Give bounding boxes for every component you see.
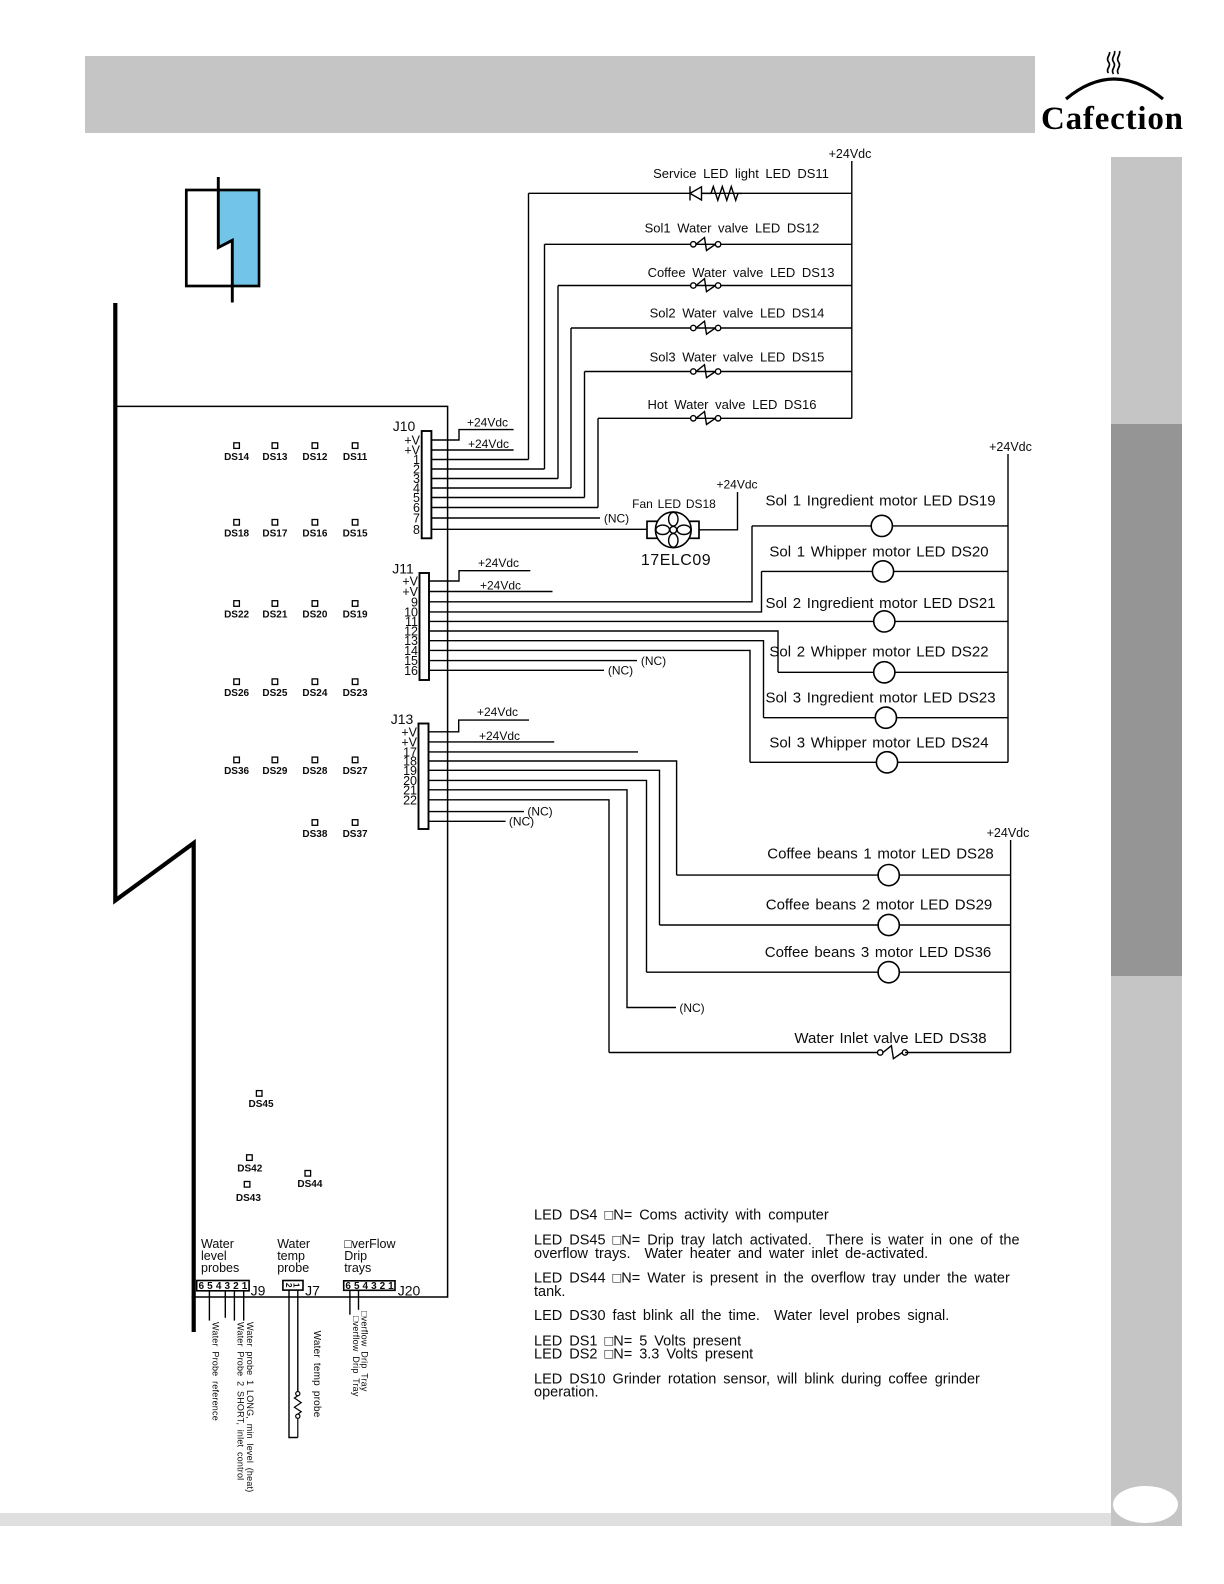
- wire J13 pin 18 to DS28 row: [429, 761, 677, 875]
- wire +24Vdc top bus vertical: [851, 161, 853, 418]
- svg-text:probes: probes: [201, 1261, 239, 1275]
- wire DS12 drop to J10 pin 2: [544, 244, 546, 469]
- svg-text:DS19: DS19: [343, 609, 368, 620]
- LED DS16 indicator: [312, 520, 318, 526]
- wire J11 +V(2) to +24Vdc: [429, 591, 553, 593]
- motor Sol 3 Whipper LED DS24: [876, 752, 897, 773]
- svg-text:Sol 3 Whipper motor LED DS24: Sol 3 Whipper motor LED DS24: [769, 735, 988, 752]
- valve symbol DS16: [691, 412, 721, 425]
- svg-text:DS37: DS37: [343, 829, 368, 840]
- wire DS13 drop to J10 pin 3: [557, 286, 559, 479]
- svg-text:DS12: DS12: [302, 452, 327, 463]
- connector J20: [344, 1281, 395, 1291]
- LED DS20 indicator: [312, 601, 318, 607]
- LED DS17 indicator: [272, 520, 278, 526]
- svg-text:overflow trays. Water heater: overflow trays. Water heater and water i…: [534, 1246, 928, 1262]
- LED DS43 indicator: [244, 1182, 250, 1188]
- LED DS45 indicator: [256, 1091, 262, 1097]
- thermistor water temp probe: [294, 1392, 301, 1438]
- LED DS28 indicator: [312, 757, 318, 763]
- LED DS38 indicator: [312, 820, 318, 826]
- wire thick board flash outline (left edge): [115, 303, 193, 1332]
- wire J11 pin 13 to DS23 row: [429, 641, 764, 718]
- connector J7: [283, 1281, 303, 1291]
- connector J9: [197, 1281, 249, 1291]
- connector J10: [422, 431, 432, 538]
- motor Coffee beans 3 LED DS36: [878, 962, 899, 983]
- svg-text:Sol 2 Whipper motor LED DS22: Sol 2 Whipper motor LED DS22: [769, 643, 988, 660]
- LED DS29 indicator: [272, 757, 278, 763]
- svg-text:DS43: DS43: [236, 1193, 261, 1204]
- LED DS44 indicator: [305, 1171, 311, 1177]
- wire J13 pin nc1 stub: [429, 811, 525, 813]
- LED DS37 indicator: [352, 820, 358, 826]
- wire DS12 row horizontal: [545, 243, 852, 245]
- svg-text:Hot Water valve LED DS16: Hot Water valve LED DS16: [647, 397, 816, 412]
- svg-text:Water Probe 2 SHORT, inlet con: Water Probe 2 SHORT, inlet control: [236, 1322, 246, 1480]
- wire J7 temp probe right upper: [297, 1290, 299, 1392]
- wire J10 pin 3 horizontal: [431, 478, 558, 480]
- connector J13: [419, 724, 429, 830]
- svg-text:Water probe 1 LONG, min level: Water probe 1 LONG, min level (heat): [245, 1322, 255, 1492]
- svg-text:J20: J20: [398, 1282, 421, 1298]
- svg-text:J10: J10: [393, 418, 416, 434]
- wire J13 pin 21 to NC: [429, 790, 677, 1008]
- svg-text:(NC): (NC): [679, 1001, 704, 1015]
- wire J11 pin 14 to DS24 row: [429, 650, 750, 762]
- svg-text:trays: trays: [344, 1261, 371, 1275]
- svg-text:+24Vdc: +24Vdc: [480, 579, 521, 593]
- wire DS14 drop to J10 pin 4: [570, 328, 572, 488]
- motor Sol 2 Ingredient LED DS21: [874, 611, 895, 632]
- wire DS29 row right: [899, 924, 1010, 926]
- motor Sol 2 Whipper LED DS22: [874, 662, 895, 683]
- svg-text:DS45: DS45: [248, 1099, 273, 1110]
- svg-text:Sol2 Water valve LED DS14: Sol2 Water valve LED DS14: [650, 306, 825, 321]
- svg-text:DS25: DS25: [262, 688, 287, 699]
- wire J11 pin 10 to DS20 row: [429, 571, 762, 612]
- svg-text:2: 2: [380, 1281, 386, 1292]
- wire DS23 row right: [897, 717, 1009, 719]
- svg-text:+24Vdc: +24Vdc: [829, 147, 872, 161]
- svg-text:+24Vdc: +24Vdc: [467, 416, 508, 430]
- valve symbol DS14: [691, 321, 721, 334]
- svg-text:Sol 1 Ingredient motor LED DS1: Sol 1 Ingredient motor LED DS19: [765, 493, 995, 510]
- svg-text:DS15: DS15: [343, 529, 368, 540]
- LED DS42 indicator: [247, 1155, 253, 1161]
- fan body 17ELC09: [647, 521, 699, 538]
- svg-text:4: 4: [216, 1281, 222, 1292]
- svg-text:DS11: DS11: [343, 452, 368, 463]
- svg-text:DS28: DS28: [302, 766, 327, 777]
- svg-text:2: 2: [233, 1281, 239, 1292]
- LED DS18 indicator: [234, 520, 240, 526]
- wire DS38 row right: [905, 1052, 1011, 1054]
- wire DS13 row horizontal: [558, 285, 852, 287]
- svg-text:DS29: DS29: [262, 766, 287, 777]
- svg-text:DS16: DS16: [302, 529, 327, 540]
- wire J10 pin 8 to fan: [431, 528, 647, 530]
- wire J7 temp probe loop left: [289, 1290, 298, 1437]
- wire J11 pin 11 to DS21 row: [429, 620, 874, 622]
- LED DS36 indicator: [234, 757, 240, 763]
- wire J9 pin 3 stub: [224, 1291, 226, 1318]
- wire DS28 row right: [899, 874, 1010, 876]
- node main-board enclosure outline: [115, 406, 447, 1297]
- svg-text:LED DS2 □N= 3.3 Volts present: LED DS2 □N= 3.3 Volts present: [534, 1346, 753, 1362]
- valve symbol DS15: [691, 365, 721, 378]
- LED DS19 indicator: [352, 601, 358, 607]
- wire J9 pin Water Probe 2: [233, 1291, 235, 1321]
- svg-text:Sol 2 Ingredient motor LED DS2: Sol 2 Ingredient motor LED DS21: [765, 595, 995, 612]
- LED DS15 indicator: [352, 520, 358, 526]
- svg-text:□verflow Drip Tray: □verflow Drip Tray: [351, 1316, 361, 1397]
- LED DS12 indicator: [312, 443, 318, 449]
- svg-text:4: 4: [363, 1281, 369, 1292]
- wire J10 pin 2 horizontal: [431, 468, 544, 470]
- svg-text:DS26: DS26: [224, 688, 249, 699]
- svg-text:operation.: operation.: [534, 1384, 599, 1400]
- wire J11 pin 16 to NC: [429, 669, 604, 671]
- svg-text:3: 3: [371, 1281, 377, 1292]
- svg-text:Sol 1 Whipper motor LED DS20: Sol 1 Whipper motor LED DS20: [769, 543, 988, 560]
- wire DS11 row horizontal: [529, 192, 852, 194]
- wire DS38 row left: [609, 1052, 880, 1054]
- wire J20 overflow tray right: [358, 1290, 360, 1310]
- wire DS22 row left: [778, 671, 874, 673]
- svg-text:DS38: DS38: [302, 829, 327, 840]
- resistor R (service LED row): [702, 187, 743, 201]
- wire sol motor +24Vdc bus: [1007, 454, 1009, 762]
- svg-text:+24Vdc: +24Vdc: [989, 440, 1032, 454]
- svg-text:DS13: DS13: [262, 452, 287, 463]
- svg-text:+24Vdc: +24Vdc: [987, 826, 1030, 840]
- svg-text:3: 3: [224, 1281, 230, 1292]
- wire J10 pin 1 horizontal: [431, 459, 528, 461]
- motor Sol 1 Whipper LED DS20: [872, 561, 893, 582]
- svg-text:DS21: DS21: [262, 609, 287, 620]
- svg-text:6: 6: [199, 1281, 205, 1292]
- wire DS21 row right: [895, 620, 1008, 622]
- wire J10 pin 5 horizontal: [431, 497, 584, 499]
- wire DS15 row horizontal: [585, 371, 852, 373]
- svg-text:Fan LED DS18: Fan LED DS18: [632, 497, 716, 511]
- svg-text:□verflow Drip Tray: □verflow Drip Tray: [360, 1311, 370, 1392]
- svg-text:(NC): (NC): [641, 654, 666, 668]
- svg-text:1: 1: [292, 1283, 302, 1288]
- valve symbol DS13: [691, 279, 721, 292]
- svg-text:probe: probe: [277, 1261, 309, 1275]
- wire J13 pin 17 stub: [429, 751, 639, 753]
- wire DS20 row left: [762, 570, 873, 572]
- diode CR (service LED row): [690, 186, 702, 200]
- svg-text:Sol3 Water valve LED DS15: Sol3 Water valve LED DS15: [650, 350, 825, 365]
- LED DS23 indicator: [352, 679, 358, 685]
- svg-text:LED DS44 □N= Water is present: LED DS44 □N= Water is present in the ove…: [534, 1271, 1010, 1287]
- svg-text:16: 16: [404, 664, 418, 678]
- svg-text:Water temp probe: Water temp probe: [311, 1331, 322, 1418]
- wire J10 +V(2) to +24Vdc: [431, 449, 513, 451]
- wire J10 +V to +24Vdc: [431, 430, 513, 440]
- wire DS23 row left: [764, 717, 876, 719]
- svg-text:5: 5: [207, 1281, 213, 1292]
- svg-text:LED DS4 □N= Coms activity with: LED DS4 □N= Coms activity with computer: [534, 1207, 829, 1223]
- svg-text:(NC): (NC): [604, 511, 629, 525]
- svg-text:tank.: tank.: [534, 1284, 565, 1300]
- wire DS11 drop to J10 pin 1: [528, 193, 530, 459]
- wire DS24 row left: [750, 761, 876, 763]
- wire J13 pin nc2 stub: [429, 820, 506, 822]
- svg-text:DS44: DS44: [297, 1179, 322, 1190]
- svg-text:LED DS10 Grinder rotation sens: LED DS10 Grinder rotation sensor, will b…: [534, 1372, 980, 1388]
- wire DS19 row left: [752, 525, 871, 527]
- wire J13 pin 22 to DS38 row: [429, 800, 610, 1053]
- fan blades circle: [655, 512, 691, 548]
- LED DS22 indicator: [234, 601, 240, 607]
- svg-text:DS18: DS18: [224, 529, 249, 540]
- wire coffee +24Vdc bus: [1010, 840, 1012, 1053]
- LED DS11 indicator: [352, 443, 358, 449]
- LED DS21 indicator: [272, 601, 278, 607]
- svg-text:17ELC09: 17ELC09: [641, 552, 711, 569]
- svg-text:Water Inlet valve LED DS38: Water Inlet valve LED DS38: [794, 1030, 986, 1047]
- svg-text:DS42: DS42: [237, 1164, 262, 1175]
- svg-text:(NC): (NC): [509, 814, 534, 828]
- svg-text:1: 1: [388, 1281, 394, 1292]
- wire DS28 row left: [677, 874, 879, 876]
- wire DS20 row right: [894, 570, 1008, 572]
- svg-text:+24Vdc: +24Vdc: [477, 705, 518, 719]
- svg-text:8: 8: [413, 523, 420, 537]
- LED DS14 indicator: [234, 443, 240, 449]
- svg-text:DS14: DS14: [224, 452, 249, 463]
- svg-text:DS36: DS36: [224, 766, 249, 777]
- wire DS16 row horizontal: [598, 417, 852, 419]
- wire DS36 row left: [647, 971, 879, 973]
- wire DS29 row left: [660, 924, 879, 926]
- svg-text:Sol 3 Ingredient motor LED DS2: Sol 3 Ingredient motor LED DS23: [765, 690, 995, 707]
- wire DS22 row right: [895, 671, 1008, 673]
- motor Sol 3 Ingredient LED DS23: [875, 707, 896, 728]
- svg-text:J7: J7: [305, 1282, 320, 1298]
- svg-text:DS22: DS22: [224, 609, 249, 620]
- motor Sol 1 Ingredient LED DS19: [871, 515, 892, 536]
- svg-text:Water Probe reference: Water Probe reference: [211, 1322, 221, 1421]
- svg-text:+24Vdc: +24Vdc: [716, 477, 757, 491]
- wire J10 pin 6 horizontal: [431, 507, 598, 509]
- svg-text:Coffee beans 2 motor LED DS29: Coffee beans 2 motor LED DS29: [766, 897, 993, 914]
- wire J9 pin Water probe 1: [243, 1291, 245, 1321]
- valve Water Inlet LED DS38: [878, 1046, 908, 1059]
- LED DS24 indicator: [312, 679, 318, 685]
- wire J11 +V to +24Vdc: [429, 571, 530, 581]
- wire J13 pin 20 to DS36 row: [429, 780, 647, 972]
- svg-text:DS24: DS24: [302, 688, 327, 699]
- wire fan to +24Vdc: [699, 492, 738, 530]
- wire J9 pin Water Probe reference: [208, 1291, 210, 1321]
- wire J11 pin 12 to DS22 row: [429, 631, 778, 672]
- wire J13 pin 19 to DS29 row: [429, 770, 660, 925]
- svg-text:Service LED light LED DS11: Service LED light LED DS11: [653, 166, 829, 181]
- wire DS24 row right: [898, 761, 1008, 763]
- svg-text:Sol1 Water valve LED DS12: Sol1 Water valve LED DS12: [645, 221, 820, 236]
- connector J11: [420, 573, 430, 680]
- svg-text:DS17: DS17: [262, 529, 287, 540]
- motor Coffee beans 1 LED DS28: [878, 865, 899, 886]
- svg-text:Coffee Water valve LED DS13: Coffee Water valve LED DS13: [648, 265, 835, 280]
- wire DS36 row right: [899, 971, 1010, 973]
- wire J11 pin 9 to DS19 row: [429, 526, 752, 602]
- wire DS19 row right: [892, 525, 1008, 527]
- wire J10 pin 7 to NC: [431, 517, 600, 519]
- svg-text:+24Vdc: +24Vdc: [478, 556, 519, 570]
- svg-text:(NC): (NC): [608, 664, 633, 678]
- LED DS27 indicator: [352, 757, 358, 763]
- valve symbol DS12: [691, 238, 721, 251]
- LED DS13 indicator: [272, 443, 278, 449]
- svg-text:1: 1: [242, 1281, 248, 1292]
- svg-text:LED DS30 fast blink all the ti: LED DS30 fast blink all the time. Water …: [534, 1308, 949, 1324]
- motor Coffee beans 2 LED DS29: [878, 914, 899, 935]
- svg-text:+24Vdc: +24Vdc: [468, 437, 509, 451]
- svg-text:DS23: DS23: [343, 688, 368, 699]
- svg-text:22: 22: [403, 793, 417, 807]
- node water-tank flash symbol (blue): [186, 177, 259, 303]
- wire J20 overflow tray left: [349, 1290, 351, 1314]
- wire DS15 drop to J10 pin 5: [584, 372, 586, 498]
- wire J10 pin 4 horizontal: [431, 487, 571, 489]
- svg-text:Coffee beans 3 motor LED DS36: Coffee beans 3 motor LED DS36: [765, 944, 992, 961]
- wire J13 +V(2) to +24Vdc: [429, 741, 555, 743]
- LED DS25 indicator: [272, 679, 278, 685]
- svg-text:DS20: DS20: [302, 609, 327, 620]
- svg-text:+24Vdc: +24Vdc: [479, 729, 520, 743]
- svg-text:Coffee beans 1 motor LED DS28: Coffee beans 1 motor LED DS28: [767, 846, 994, 863]
- wire DS14 row horizontal: [571, 327, 852, 329]
- svg-text:DS27: DS27: [343, 766, 368, 777]
- wire DS16 drop to J10 pin 6: [597, 418, 599, 507]
- LED DS26 indicator: [234, 679, 240, 685]
- svg-text:J9: J9: [251, 1282, 266, 1298]
- wire J11 pin 15 to NC: [429, 660, 637, 662]
- wire J13 +V to +24Vdc: [429, 720, 530, 732]
